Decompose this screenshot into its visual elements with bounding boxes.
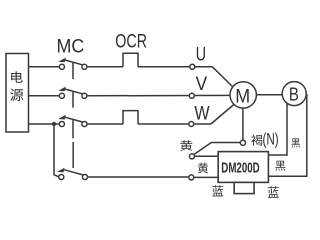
svg-text:(N): (N): [263, 130, 279, 149]
svg-text:B: B: [289, 83, 299, 104]
svg-text:MC: MC: [57, 35, 85, 57]
svg-text:V: V: [196, 73, 208, 95]
svg-text:M: M: [235, 86, 250, 107]
svg-text:OCR: OCR: [115, 32, 147, 53]
svg-text:DM200D: DM200D: [221, 159, 260, 176]
svg-text:U: U: [196, 44, 206, 66]
svg-text:W: W: [194, 103, 210, 125]
